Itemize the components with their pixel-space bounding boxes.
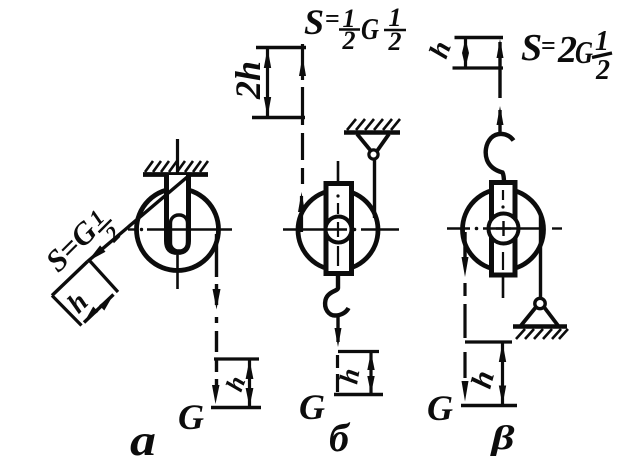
dimension tick h top v2 [465,340,512,343]
horizontal center line b [283,228,399,232]
dimension line h vertical a [246,359,254,408]
dimension line h top v [462,38,469,69]
label S=1/2 G 1/2 b [304,2,406,56]
pulley wheel v [463,189,544,270]
rope S diagonal a [88,176,190,262]
svg-text:G: G [575,34,593,70]
svg-text:G: G [427,388,453,428]
svg-text:G: G [361,11,379,46]
pin b [369,150,378,159]
ceiling line a [143,172,208,177]
axle v [489,214,519,244]
svg-text:1: 1 [595,26,609,57]
dimension tick a lower [52,296,82,326]
pin v [535,298,545,308]
svg-text:β: β [489,420,515,457]
ground line v [513,324,567,329]
dimension tick h top v [455,36,504,39]
axle b [326,217,352,243]
arrow on rope S a [88,245,106,261]
svg-text:2: 2 [557,29,577,71]
hauling rope b (left, dashed, arrows up) [298,44,306,232]
svg-text:б: б [329,415,351,460]
svg-text:G: G [178,397,204,437]
pulled rope v (arrows up) [497,39,504,136]
dimension tick a upper [89,260,118,292]
load rope v (left, dashed, arrows down) [462,232,469,402]
dimension line h bottom v [499,342,506,406]
vertical center line v [501,190,504,298]
dimension tick 2h bottom b [252,116,305,119]
hook v [486,134,514,183]
shackle block v [492,183,516,276]
dimension tick h bottom v2 [461,404,517,408]
load rope b with arrow [335,316,342,392]
hook b [325,275,348,316]
ceiling hatching b [347,119,400,130]
fixed rope v (right) [539,216,542,298]
label S=2G 1/2 v [521,26,612,86]
dimension tick h bottom a [211,406,261,410]
hanger triangle b [357,134,371,151]
axle slot a [171,215,188,251]
axle center cross v [496,221,511,236]
svg-text:2: 2 [388,27,402,56]
rope extension a [52,262,88,296]
dimension line h b [367,352,374,395]
vertical center line b [336,161,339,266]
svg-text:=: = [325,4,340,33]
svg-text:S: S [304,2,324,42]
svg-text:S: S [521,27,542,69]
dimension tick h top a [214,357,259,360]
ground hatching v [516,329,568,339]
shackle block b [326,184,352,274]
rope right a (load side, dashed with arrow) [212,234,221,404]
dimension tick h bottom b [334,393,383,397]
fixed rope b (right) [373,159,376,218]
svg-text:h: h [423,37,457,62]
dimension tick 2h top b [256,46,306,49]
svg-text:h: h [465,367,501,392]
svg-text:2h: 2h [228,61,268,100]
shackle (clevis) a [167,175,189,253]
dimension line 2h b [264,48,271,118]
svg-text:G: G [299,387,325,427]
ceiling hatching a [145,161,208,172]
dimension tick h top b [338,350,379,353]
horizontal center line v [447,227,562,231]
svg-text:a: a [130,416,156,465]
svg-text:2: 2 [342,26,356,55]
svg-text:2: 2 [595,55,610,86]
dimension tick h bottom v [453,66,504,69]
ceiling line b [344,130,400,135]
support triangle v [521,307,536,326]
pulley wheel a [137,189,219,271]
pulley wheel b [298,190,378,270]
dimension line h diagonal a [84,295,114,323]
label S=G 1/2 a [38,200,128,290]
svg-text:=: = [541,31,556,60]
vertical center line a [176,139,179,289]
horizontal center line a [128,228,232,231]
